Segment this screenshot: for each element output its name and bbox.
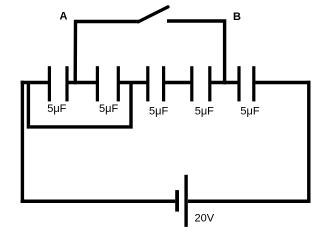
wire: [118, 81, 148, 85]
wire: [21, 81, 24, 203]
capacitor C4: [192, 66, 214, 117]
svg-text:5μF: 5μF: [149, 105, 168, 117]
wire: [164, 81, 192, 85]
capacitor C2: [97, 66, 118, 115]
svg-text:5μF: 5μF: [195, 105, 214, 117]
capacitor C5: [239, 66, 260, 117]
capacitor C1: [47, 66, 67, 115]
wire: [210, 81, 239, 85]
svg-text:A: A: [60, 11, 68, 23]
wire: [167, 21, 225, 84]
wire: [254, 81, 311, 85]
wire: [75, 22, 139, 85]
wire: [67, 81, 97, 85]
wire: [188, 199, 311, 203]
wire: [307, 81, 310, 203]
wire: [21, 199, 176, 203]
wire: [21, 81, 51, 85]
capacitor C3: [148, 66, 169, 117]
svg-text:5μF: 5μF: [99, 103, 118, 115]
svg-text:5μF: 5μF: [240, 105, 259, 117]
svg-text:20V: 20V: [195, 213, 215, 225]
wire: [28, 83, 131, 127]
battery B1: [177, 175, 215, 227]
svg-text:5μF: 5μF: [47, 103, 66, 115]
svg-text:B: B: [233, 11, 241, 23]
switch S1: [138, 7, 168, 22]
